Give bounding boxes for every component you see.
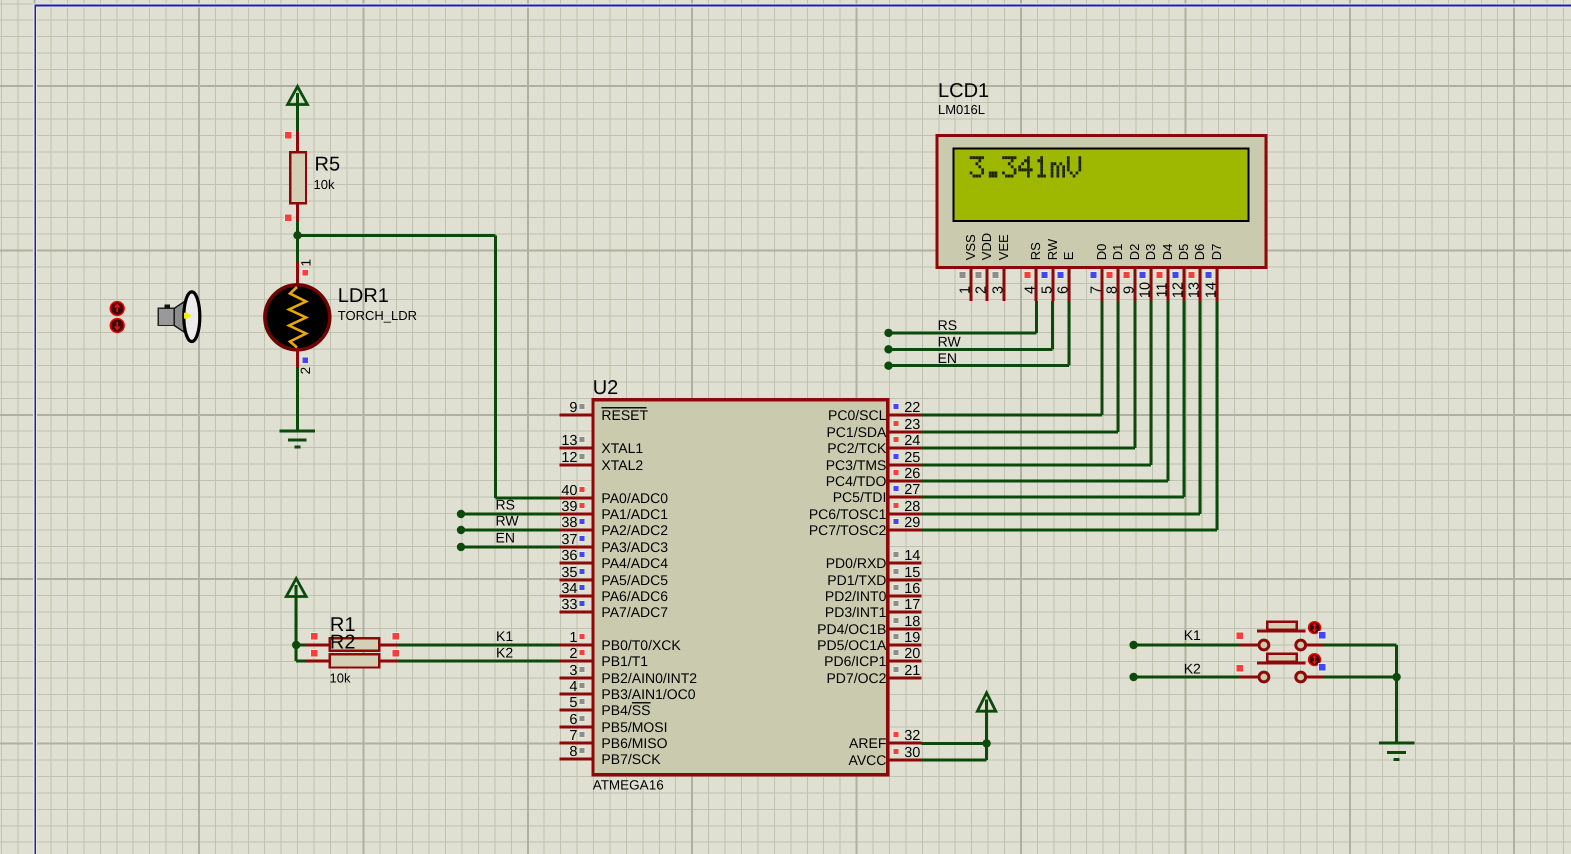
svg-text:PA5/ADC5: PA5/ADC5	[601, 572, 668, 588]
svg-text:RS: RS	[938, 317, 957, 333]
svg-text:1: 1	[298, 259, 313, 267]
svg-text:39: 39	[561, 499, 577, 515]
svg-text:5: 5	[1040, 286, 1056, 294]
svg-text:PC0/SCL: PC0/SCL	[828, 407, 887, 423]
svg-text:PD2/INT0: PD2/INT0	[825, 588, 887, 604]
svg-text:D3: D3	[1143, 244, 1158, 261]
svg-text:13: 13	[1187, 282, 1203, 298]
svg-text:R2: R2	[330, 632, 356, 654]
svg-text:19: 19	[904, 630, 920, 646]
svg-text:XTAL2: XTAL2	[601, 457, 643, 473]
svg-text:4: 4	[569, 679, 577, 695]
svg-text:24: 24	[904, 433, 920, 449]
svg-text:7: 7	[569, 728, 577, 744]
svg-text:D0: D0	[1094, 244, 1109, 261]
svg-text:PB7/SCK: PB7/SCK	[601, 751, 661, 767]
svg-text:8: 8	[1105, 286, 1121, 294]
svg-text:LDR1: LDR1	[338, 285, 389, 307]
svg-text:D7: D7	[1209, 244, 1224, 261]
svg-text:K2: K2	[496, 644, 513, 660]
svg-text:26: 26	[904, 466, 920, 482]
svg-text:PA6/ADC6: PA6/ADC6	[601, 588, 668, 604]
svg-text:PC5/TDI: PC5/TDI	[833, 489, 887, 505]
svg-text:AVCC: AVCC	[849, 752, 887, 768]
svg-text:RS: RS	[496, 496, 515, 512]
svg-text:PD7/OC2: PD7/OC2	[826, 670, 886, 686]
svg-text:PD6/ICP1: PD6/ICP1	[824, 653, 886, 669]
svg-text:K1: K1	[1184, 627, 1201, 643]
svg-text:PB2/AIN0/INT2: PB2/AIN0/INT2	[601, 670, 697, 686]
svg-text:PA4/ADC4: PA4/ADC4	[601, 555, 668, 571]
svg-text:D2: D2	[1127, 244, 1142, 261]
svg-text:15: 15	[904, 565, 920, 581]
svg-text:2: 2	[974, 286, 990, 294]
svg-text:PD1/TXD: PD1/TXD	[827, 572, 886, 588]
svg-text:12: 12	[561, 450, 577, 466]
svg-text:30: 30	[904, 745, 920, 761]
svg-text:PB0/T0/XCK: PB0/T0/XCK	[601, 637, 681, 653]
svg-text:XTAL1: XTAL1	[601, 440, 643, 456]
svg-text:25: 25	[904, 450, 920, 466]
svg-text:LM016L: LM016L	[938, 102, 985, 117]
svg-text:PD5/OC1A: PD5/OC1A	[817, 637, 887, 653]
svg-text:K1: K1	[496, 628, 513, 644]
svg-text:D4: D4	[1160, 244, 1175, 261]
svg-text:14: 14	[904, 548, 920, 564]
svg-text:PA3/ADC3: PA3/ADC3	[601, 539, 668, 555]
svg-text:10k: 10k	[330, 671, 351, 686]
svg-text:33: 33	[561, 597, 577, 613]
svg-text:32: 32	[904, 728, 920, 744]
svg-text:PC4/TDO: PC4/TDO	[826, 473, 887, 489]
svg-text:8: 8	[569, 744, 577, 760]
svg-text:PC6/TOSC1: PC6/TOSC1	[809, 506, 887, 522]
svg-text:ATMEGA16: ATMEGA16	[593, 778, 664, 793]
svg-text:PA2/ADC2: PA2/ADC2	[601, 522, 668, 538]
svg-text:2: 2	[569, 646, 577, 662]
svg-text:6: 6	[569, 712, 577, 728]
svg-text:40: 40	[561, 483, 577, 499]
svg-text:6: 6	[1056, 286, 1072, 294]
svg-text:VDD: VDD	[979, 233, 994, 260]
svg-text:38: 38	[561, 515, 577, 531]
svg-text:20: 20	[904, 646, 920, 662]
svg-text:1: 1	[958, 286, 974, 294]
svg-text:29: 29	[904, 515, 920, 531]
svg-text:AREF: AREF	[849, 735, 886, 751]
svg-text:PB3/AIN1/OC0: PB3/AIN1/OC0	[601, 686, 695, 702]
svg-text:EN: EN	[496, 529, 515, 545]
svg-text:PC2/TCK: PC2/TCK	[827, 440, 887, 456]
svg-text:22: 22	[904, 400, 920, 416]
svg-text:PC1/SDA: PC1/SDA	[826, 424, 887, 440]
svg-text:RESET: RESET	[601, 407, 648, 423]
svg-text:13: 13	[561, 433, 577, 449]
svg-text:18: 18	[904, 614, 920, 630]
svg-text:E: E	[1061, 251, 1076, 260]
svg-text:EN: EN	[938, 350, 957, 366]
svg-text:5: 5	[569, 695, 577, 711]
svg-text:PD4/OC1B: PD4/OC1B	[817, 621, 886, 637]
svg-text:27: 27	[904, 482, 920, 498]
svg-text:12: 12	[1171, 282, 1187, 298]
svg-text:D1: D1	[1110, 244, 1125, 261]
svg-text:17: 17	[904, 597, 920, 613]
svg-text:K2: K2	[1184, 660, 1201, 676]
svg-text:PA7/ADC7: PA7/ADC7	[601, 604, 668, 620]
svg-text:23: 23	[904, 417, 920, 433]
svg-text:RW: RW	[938, 333, 962, 349]
svg-text:11: 11	[1155, 282, 1171, 297]
svg-text:35: 35	[561, 565, 577, 581]
svg-text:PA0/ADC0: PA0/ADC0	[601, 490, 668, 506]
svg-text:2: 2	[298, 367, 313, 375]
svg-text:36: 36	[561, 548, 577, 564]
svg-text:RW: RW	[1045, 238, 1060, 260]
svg-text:U2: U2	[593, 377, 619, 399]
svg-text:VEE: VEE	[996, 234, 1011, 260]
svg-text:9: 9	[569, 400, 577, 416]
svg-text:4: 4	[1023, 286, 1039, 294]
svg-text:PD3/INT1: PD3/INT1	[825, 604, 887, 620]
svg-text:10: 10	[1138, 282, 1154, 298]
svg-text:PC7/TOSC2: PC7/TOSC2	[809, 522, 887, 538]
svg-text:TORCH_LDR: TORCH_LDR	[338, 308, 417, 323]
svg-text:VSS: VSS	[963, 234, 978, 260]
svg-text:28: 28	[904, 499, 920, 515]
svg-text:34: 34	[561, 581, 577, 597]
svg-text:10k: 10k	[314, 177, 335, 192]
svg-text:R5: R5	[315, 154, 341, 176]
svg-text:3: 3	[991, 286, 1007, 294]
svg-text:PB6/MISO: PB6/MISO	[601, 735, 667, 751]
svg-text:PD0/RXD: PD0/RXD	[826, 555, 887, 571]
svg-text:PC3/TMS: PC3/TMS	[826, 457, 887, 473]
svg-text:14: 14	[1204, 282, 1220, 298]
svg-text:16: 16	[904, 581, 920, 597]
svg-text:LCD1: LCD1	[938, 80, 989, 102]
svg-text:PB4/SS: PB4/SS	[601, 702, 650, 718]
svg-text:D6: D6	[1192, 244, 1207, 261]
svg-text:9: 9	[1122, 286, 1138, 294]
svg-text:D5: D5	[1176, 244, 1191, 261]
svg-text:PB1/T1: PB1/T1	[601, 653, 648, 669]
svg-text:37: 37	[561, 532, 577, 548]
svg-text:1: 1	[569, 630, 577, 646]
svg-text:PA1/ADC1: PA1/ADC1	[601, 506, 668, 522]
svg-text:3: 3	[569, 663, 577, 679]
svg-text:7: 7	[1089, 286, 1105, 294]
svg-text:PB5/MOSI: PB5/MOSI	[601, 719, 667, 735]
svg-text:RW: RW	[496, 512, 520, 528]
svg-text:21: 21	[904, 663, 920, 679]
svg-text:RS: RS	[1028, 242, 1043, 260]
